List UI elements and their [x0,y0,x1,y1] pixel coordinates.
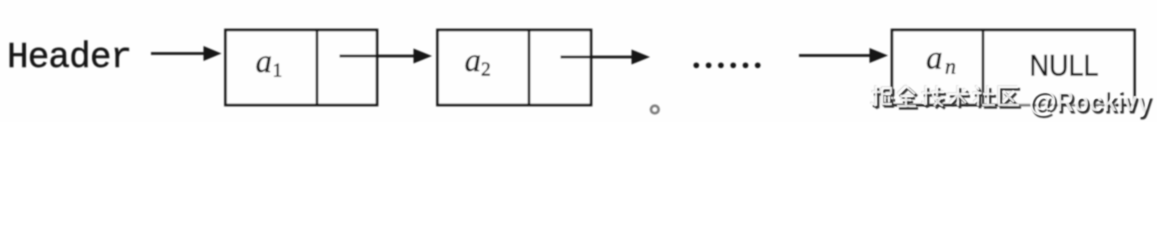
translucent wash where watermark crosses box border [1008,100,1116,108]
svg-text:n: n [945,54,956,79]
arrow from node 1 to node 2 [340,49,433,64]
header label "Header" [7,37,131,78]
watermark CJK shadow (drawn strokes) [873,88,1021,108]
watermark shadow [1031,89,1154,121]
watermark CJK white strokes "掘金技术社区" [871,86,1019,106]
svg-text:a: a [465,43,482,79]
svg-text:2: 2 [481,60,491,81]
svg-text:Header: Header [7,37,131,78]
label a1 in node 1 [256,44,283,81]
ellipsis dots [693,62,760,68]
watermark CJK faint halo [870,85,1018,105]
node box 2 (data cell + pointer cell) [438,30,592,105]
label an in last node [926,41,956,79]
arrow from node 2 rightwards [561,50,651,65]
arrow into last node [799,48,888,63]
arrow from Header to node 1 [151,46,222,61]
svg-text:1: 1 [273,60,283,81]
svg-text:Rockivy: Rockivy [1056,86,1151,118]
last node box (data cell + NULL cell) [892,30,1135,105]
svg-text:NULL: NULL [1030,50,1099,83]
node box 1 (data cell + pointer cell) [226,30,378,105]
NULL label [1030,50,1099,83]
watermark text "@ Rockivy" [1029,86,1152,118]
svg-text:a: a [926,41,943,77]
svg-text:a: a [256,44,273,80]
small gray circle artifact [651,106,659,114]
svg-text:@: @ [1029,86,1057,118]
label a2 in node 2 [465,43,491,81]
